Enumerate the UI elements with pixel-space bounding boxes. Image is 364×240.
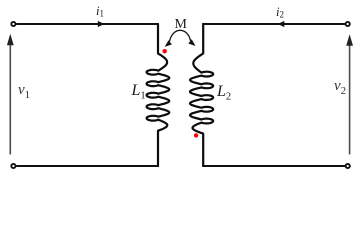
- label M: [175, 17, 187, 33]
- label i2: [276, 5, 284, 20]
- wire top-left horizontal: [16, 23, 159, 25]
- polarity dot L1 (red): [163, 49, 167, 53]
- label L2: [217, 83, 231, 103]
- wire bottom-left horizontal: [16, 165, 159, 167]
- label i1: [96, 4, 104, 19]
- label L1: [132, 82, 146, 102]
- inductor L1 coil: [147, 24, 170, 166]
- current arrow i2: [278, 21, 285, 27]
- inductor L2 coil: [190, 24, 213, 166]
- voltage arrow v1: [9, 44, 11, 155]
- terminal bottom-right: [346, 164, 350, 168]
- terminal top-right: [346, 22, 350, 26]
- current arrow i1: [98, 21, 105, 27]
- terminal top-left: [11, 22, 15, 26]
- mutual coupling arc M: [170, 30, 191, 41]
- polarity dot L2 (red): [194, 133, 198, 137]
- wire bottom-right horizontal: [202, 165, 345, 167]
- label v2: [334, 78, 346, 97]
- voltage arrow v2: [349, 45, 351, 155]
- coupling arrowhead left: [165, 40, 172, 47]
- wire top-right horizontal: [202, 23, 345, 25]
- coupling arrowhead right: [188, 39, 195, 46]
- label v1: [18, 82, 30, 101]
- terminal bottom-left: [11, 164, 15, 168]
